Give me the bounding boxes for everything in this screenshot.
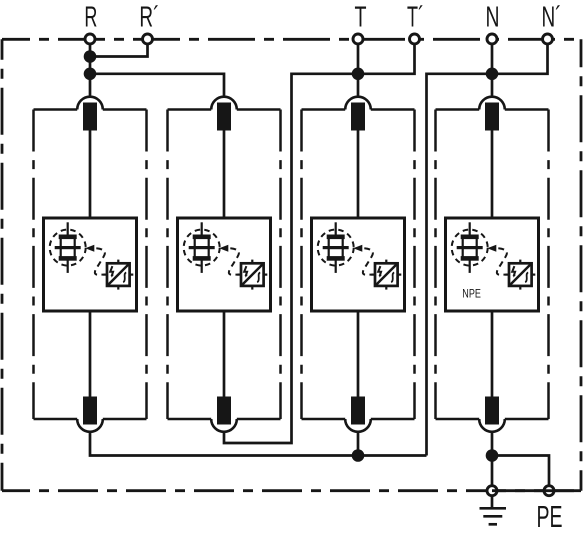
varistor / protective element (module 1) bbox=[103, 260, 133, 290]
junction N-PE node bbox=[486, 449, 499, 462]
wire: bottom bus from module 1 to riser bbox=[90, 432, 427, 456]
SPD symbol box (module 3) bbox=[312, 218, 405, 311]
wire: N' link down and left to N node bbox=[492, 39, 548, 74]
wire: N terminal down to module 4 bbox=[491, 39, 494, 96]
svg-text:N: N bbox=[486, 2, 500, 34]
wire: solid bottom border run between N-PE and PE terminals to corner bbox=[492, 489, 581, 492]
terminal PE bbox=[544, 486, 554, 496]
wire: T terminal down to module 3 bbox=[357, 39, 360, 96]
svg-text:T: T bbox=[355, 2, 367, 34]
svg-text:PE: PE bbox=[537, 499, 563, 533]
spark gap / gas discharge tube (module 3) bbox=[318, 222, 354, 273]
svg-text:N´: N´ bbox=[542, 2, 562, 34]
SPD symbol box (module 2) bbox=[178, 218, 271, 311]
wire: top disconnector to SPD symbol box (module 2) bbox=[223, 131, 226, 220]
junction R / R' tie point bbox=[84, 50, 97, 63]
terminal R bbox=[85, 34, 95, 44]
varistor / protective element (module 2) bbox=[237, 260, 267, 290]
wire: SPD symbol box to bottom disconnector (module 3) bbox=[357, 310, 360, 398]
varistor / protective element (module 4) bbox=[505, 260, 535, 290]
junction N node bbox=[486, 68, 499, 81]
thermal link arrowhead (module 3) bbox=[353, 245, 362, 252]
wire: R node branch to module 2 top bbox=[90, 74, 224, 97]
wire: SPD symbol box to bottom disconnector (module 2) bbox=[223, 310, 226, 398]
dashed thermal action line (module 2) bbox=[229, 248, 239, 274]
dashed thermal action line (module 4) bbox=[497, 248, 507, 274]
svg-text:T´: T´ bbox=[407, 2, 424, 34]
thermal link arrowhead (module 1) bbox=[85, 245, 94, 252]
wire: module 4 bottom to N-PE junction bbox=[491, 432, 494, 491]
wire: top disconnector to SPD symbol box (module 3) bbox=[357, 131, 360, 220]
wire: bus riser up to N node bbox=[427, 74, 493, 456]
svg-text:R: R bbox=[84, 2, 97, 34]
thermal disconnector bottom (module 3) bbox=[345, 397, 371, 432]
thermal link arrowhead (module 2) bbox=[219, 245, 228, 252]
terminal T bbox=[353, 34, 363, 44]
wire: T' link down and left to T node bbox=[358, 39, 415, 74]
SPD symbol box (module 4) bbox=[446, 218, 539, 311]
thermal disconnector top (module 2) bbox=[211, 97, 237, 131]
wire: SPD symbol box to bottom disconnector (module 1) bbox=[89, 310, 92, 398]
thermal disconnector top (module 1) bbox=[77, 97, 103, 131]
wire: top disconnector to SPD symbol box (module 1) bbox=[89, 131, 92, 220]
wire: module 3 bottom to bus bbox=[357, 432, 360, 456]
terminal N' bbox=[543, 34, 553, 44]
terminal T' bbox=[410, 34, 420, 44]
thermal disconnector bottom (module 1) bbox=[77, 397, 103, 432]
SPD symbol box (module 1) bbox=[44, 218, 137, 311]
spark gap / gas discharge tube (module 1) bbox=[50, 222, 86, 273]
wire: SPD symbol box to bottom disconnector (module 4) bbox=[491, 310, 494, 398]
thermal disconnector top (module 4) bbox=[479, 97, 505, 131]
thermal disconnector top (module 3) bbox=[345, 97, 371, 131]
junction R node branch bbox=[84, 68, 97, 81]
junction bottom bus node bbox=[352, 449, 365, 462]
thermal disconnector bottom (module 4) bbox=[479, 397, 505, 432]
terminal R' bbox=[143, 34, 153, 44]
thermal link arrowhead (module 4) bbox=[487, 245, 496, 252]
SPD module 3 enclosure (dash-dot box) bbox=[302, 110, 415, 420]
thermal disconnector bottom (module 2) bbox=[211, 397, 237, 432]
wire: N-PE junction across to PE terminal bbox=[492, 456, 549, 491]
spark gap / gas discharge tube (module 4) bbox=[452, 222, 488, 273]
wire: module 2 bottom riser up to T node bbox=[224, 74, 358, 443]
SPD module 4 enclosure (dash-dot box) bbox=[436, 110, 549, 420]
wire: R terminal down to module 1 bbox=[89, 39, 92, 96]
terminal internal ground (N-PE) bbox=[487, 486, 497, 496]
spark gap / gas discharge tube (module 2) bbox=[184, 222, 220, 273]
terminal N bbox=[487, 34, 497, 44]
SPD module 2 enclosure (dash-dot box) bbox=[168, 110, 281, 420]
svg-text:R´: R´ bbox=[139, 2, 159, 34]
wire: top disconnector to SPD symbol box (module 4) bbox=[491, 131, 494, 220]
dashed thermal action line (module 1) bbox=[95, 248, 105, 274]
junction T node bbox=[352, 68, 365, 81]
ground symbol bbox=[480, 496, 507, 524]
svg-text:NPE: NPE bbox=[462, 286, 481, 300]
wire: R' link down and left to R node bbox=[90, 39, 148, 57]
varistor / protective element (module 3) bbox=[371, 260, 401, 290]
dashed thermal action line (module 3) bbox=[363, 248, 373, 274]
SPD module 1 enclosure (dash-dot box) bbox=[34, 110, 147, 420]
